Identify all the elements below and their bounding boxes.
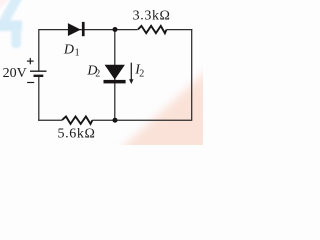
diode D2 cathode bar (104, 80, 126, 84)
battery 20V long positive plate (30, 70, 47, 72)
wire top right segment after 3.3k resistor (166, 29, 192, 31)
wire top left segment (battery top to 3.3k resistor) (39, 29, 138, 31)
battery short negative plate (34, 75, 44, 77)
wire right vertical (191, 29, 193, 121)
svg-text:1: 1 (75, 48, 80, 59)
decorative peach triangle bottom-right (117, 67, 211, 152)
svg-text:5.6kΩ: 5.6kΩ (58, 127, 96, 142)
wire bottom left of 5.6k resistor (38, 119, 62, 121)
wire bottom right of 5.6k resistor (92, 119, 192, 121)
plus sign (27, 58, 34, 64)
decorative pink wedge top-left (0, 0, 14, 15)
resistor 3.3k zigzag (138, 26, 166, 33)
wire left vertical above battery (38, 29, 40, 71)
node dot bottom junction (113, 118, 118, 123)
diode D1 triangle (68, 23, 81, 36)
wire left vertical below battery (38, 76, 40, 121)
resistor 5.6k zigzag (62, 117, 92, 124)
minus sign (27, 82, 34, 84)
diode D1 cathode bar (82, 22, 85, 36)
svg-text:D: D (63, 43, 74, 58)
svg-text:20V: 20V (3, 66, 27, 81)
svg-text:2: 2 (95, 69, 100, 80)
svg-text:2: 2 (139, 69, 144, 80)
diode D2 triangle (105, 65, 125, 80)
current arrow I2 (129, 63, 133, 84)
decorative blue glyph fragment top-left (0, 0, 24, 48)
node dot top junction (113, 27, 118, 32)
svg-text:3.3kΩ: 3.3kΩ (133, 8, 171, 23)
wire middle branch through D2 (114, 30, 116, 121)
